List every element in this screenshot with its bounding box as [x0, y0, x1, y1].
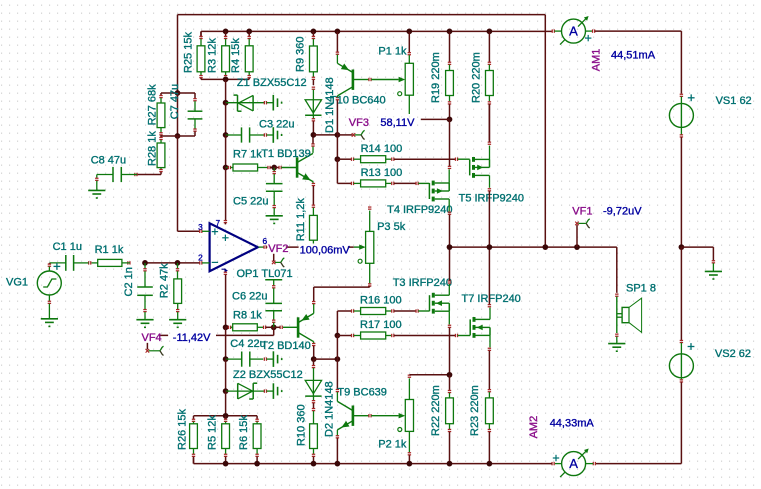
wire T10 collector down [336, 100, 338, 135]
label Z2 BZX55C12 [233, 369, 303, 381]
leader -11,42V [147, 327, 273, 335]
svg-text:P1 1k: P1 1k [378, 46, 407, 58]
resistor R25 15k [197, 31, 205, 79]
label R8 1k [233, 309, 262, 321]
transistor T10 BC640 [336, 31, 371, 99]
label T1 BD139 [261, 148, 311, 160]
resistor R13 100 [337, 180, 415, 187]
wire R14 left corner down [336, 159, 338, 183]
generator VG1 [37, 263, 61, 319]
resistor R1 1k [89, 259, 130, 266]
ground C8 [88, 190, 105, 198]
junction bias node [335, 132, 341, 138]
wire bias node down [336, 135, 338, 159]
resistor R4 15k [245, 31, 253, 79]
junction rail/T9 [335, 461, 341, 467]
svg-text:VF2: VF2 [268, 243, 288, 255]
junction rail/R4 [246, 29, 252, 35]
label AM1 [591, 49, 603, 72]
junction T2 collector node [311, 356, 317, 362]
svg-text:R9 360: R9 360 [295, 37, 307, 72]
svg-text:P3 5k: P3 5k [377, 221, 406, 233]
ground C4 [273, 351, 282, 367]
pin 7 tick [0, 0, 1, 1]
label R23 220m [469, 385, 481, 436]
label R9 360 [295, 37, 307, 72]
wire output row [450, 246, 617, 248]
wire AM1 to VS1 [595, 31, 682, 94]
resistor R28 1k [137, 136, 165, 175]
label T10 BC640 [330, 94, 386, 106]
svg-text:R22 220m: R22 220m [430, 385, 442, 436]
wire VS2 down to AM2 [596, 382, 681, 463]
label T3 IRFP240 [393, 277, 452, 289]
svg-text:T2 BD140: T2 BD140 [261, 340, 311, 352]
resistor R8 1k [223, 324, 274, 331]
label P1 1k [378, 46, 407, 58]
label R6 15k [238, 415, 250, 450]
pin 2 ticks [200, 261, 210, 264]
label R25 15k [182, 32, 194, 73]
wire VS1 down [680, 137, 682, 247]
wire mid to VS2 [680, 247, 682, 340]
svg-text:T3 IRFP240: T3 IRFP240 [393, 277, 452, 289]
svg-text:C8 47u: C8 47u [91, 154, 126, 166]
svg-text:R7 1k: R7 1k [233, 149, 262, 161]
svg-text:T9 BC639: T9 BC639 [337, 386, 387, 398]
svg-text:R2 47k: R2 47k [159, 263, 171, 298]
resistor R17 100 [337, 332, 455, 339]
probe VF3 stub [337, 130, 364, 139]
svg-text:P2 1k: P2 1k [378, 439, 407, 451]
svg-text:VS2 62: VS2 62 [715, 348, 751, 360]
probe VF4 [146, 335, 164, 355]
label R10 360 [295, 404, 307, 446]
potentiometer P2 1k [371, 375, 413, 464]
resistor R3 12k [222, 31, 230, 79]
label R27 68k [146, 84, 158, 125]
probe VF2 stub [272, 247, 284, 267]
svg-text:VF1: VF1 [572, 206, 592, 218]
wire T7 drain up [488, 247, 491, 319]
diode D2 1N4148 [305, 359, 321, 408]
leader 58,11V [421, 118, 450, 120]
wire pin2 row [143, 262, 199, 264]
capacitor C8 47u [95, 167, 137, 191]
label AM2 [528, 416, 540, 439]
junction rail/R3 [223, 29, 229, 35]
ground R2 [169, 320, 186, 328]
T2 base ticks [274, 326, 283, 329]
junction Z2 node [223, 388, 229, 394]
junction T4/T3 drains [447, 244, 453, 250]
svg-text:C6 22u: C6 22u [232, 291, 267, 303]
svg-text:44,33mA: 44,33mA [550, 418, 595, 430]
resistor R11 1,2k [310, 205, 318, 243]
wire T3 drain up [448, 247, 451, 295]
svg-text:R14 100: R14 100 [361, 143, 403, 155]
label C2 1n [123, 267, 135, 296]
resistor R27 68k [157, 93, 177, 136]
transistor T2 BD140 [283, 302, 316, 360]
label VS1 62 [716, 95, 752, 107]
svg-text:-11,42V: -11,42V [173, 332, 211, 344]
svg-text:A: A [569, 456, 578, 471]
junction Z1 node [223, 100, 229, 106]
diode D1 1N4148 [305, 87, 321, 135]
value -11,42V [172, 332, 215, 344]
junction R19 bottom node [447, 117, 453, 123]
junction C2 top [142, 260, 148, 266]
ammeter AM2 [552, 449, 595, 478]
label R1 1k [95, 244, 124, 256]
wire op-amp output [259, 245, 354, 248]
svg-text:100,06mV: 100,06mV [300, 244, 351, 256]
svg-text:T10 BC640: T10 BC640 [330, 94, 386, 106]
wire T1 collector up [312, 135, 314, 144]
label R7 1k [233, 149, 262, 161]
svg-text:VS1 62: VS1 62 [716, 95, 752, 107]
svg-text:T7 IRFP240: T7 IRFP240 [462, 293, 521, 305]
resistor R26 15k [190, 416, 198, 464]
label R3 12k [206, 38, 218, 73]
junction D1 bottom [311, 132, 317, 138]
wire T1 emitter to R11 [312, 186, 314, 205]
source VS2 62 [669, 340, 694, 382]
transistor T9 BC639 [336, 359, 371, 464]
wire feedback left vertical [177, 15, 179, 93]
mosfet T4 IRFP9240 gate lead [416, 182, 429, 185]
node B R27/R28/C7 junction [175, 133, 181, 139]
op-amp supply + marker [222, 235, 228, 241]
resistor R19 220m [446, 31, 454, 119]
resistor R16 100 [361, 308, 416, 315]
op-amp input + marker [212, 228, 218, 234]
ground Z2 [273, 383, 282, 399]
capacitor C2 1n [137, 263, 153, 320]
pin 4 arrow [222, 268, 228, 272]
potentiometer P1 1k [371, 31, 413, 114]
svg-text:R5 12k: R5 12k [206, 415, 218, 450]
label R5 12k [206, 415, 218, 450]
wire R16 corner [337, 309, 360, 335]
label C6 22u [232, 291, 267, 303]
label C3 22u [259, 119, 294, 131]
source VS1 62 [669, 94, 694, 137]
svg-text:OP1 TL071: OP1 TL071 [237, 268, 293, 280]
svg-text:R23 220m: R23 220m [469, 385, 481, 436]
value -9,72uV [603, 206, 642, 218]
wire T4 drain down [448, 199, 451, 247]
junction R14 left [335, 156, 341, 162]
svg-text:AM2: AM2 [528, 416, 540, 439]
label R17 100 [360, 319, 402, 331]
svg-text:R25 15k: R25 15k [182, 32, 194, 73]
junction P2/T3 node [447, 372, 453, 378]
mosfet T5 IRFP9240 [470, 157, 490, 178]
svg-text:R16 100: R16 100 [360, 295, 402, 307]
label VF1 [572, 206, 592, 218]
junction rail/R9 [311, 29, 317, 35]
pin 7 number [216, 219, 221, 228]
svg-text:C3 22u: C3 22u [259, 119, 294, 131]
zener Z1 BZX55C12 [226, 95, 274, 111]
svg-text:R13 100: R13 100 [361, 167, 403, 179]
wire R25/R3/R4 bottoms [201, 78, 249, 80]
svg-text:SP1 8: SP1 8 [626, 283, 656, 295]
wire T5 drain down [488, 175, 491, 247]
label R19 220m [430, 52, 442, 103]
label R28 1k [146, 131, 158, 166]
svg-text:VF3: VF3 [349, 117, 369, 129]
svg-text:R8 1k: R8 1k [233, 309, 262, 321]
svg-text:C2 1n: C2 1n [123, 267, 135, 296]
resistor R6 15k [253, 416, 261, 464]
junction C4 node [223, 356, 229, 362]
junction rail/R20 [487, 29, 493, 35]
wire node A to node B [177, 93, 179, 136]
svg-text:T5 IRFP9240: T5 IRFP9240 [459, 192, 524, 204]
ground Z1 [273, 95, 282, 111]
junction R17 left [335, 333, 341, 339]
label T7 IRFP240 [462, 293, 521, 305]
wire bottom rail [194, 458, 552, 464]
wire R7 to op-amp pin7 [224, 168, 227, 225]
svg-text:R3 12k: R3 12k [206, 38, 218, 73]
svg-text:44,51mA: 44,51mA [611, 50, 656, 62]
wire op-amp pin4 down [224, 272, 227, 327]
junction rail/R23 [487, 461, 493, 467]
mosfet T3 IRFP240 gate lead [416, 309, 429, 312]
junction feedback tap [542, 244, 548, 250]
junction VF1 tap [574, 244, 580, 250]
ground C2 [136, 320, 153, 328]
wire C4 to Z2 [225, 359, 227, 391]
pin 3 ticks [200, 230, 210, 233]
capacitor C1 1u [49, 255, 88, 271]
junction rail/P2 [407, 461, 413, 467]
svg-text:T4 IRFP9240: T4 IRFP9240 [387, 204, 452, 216]
svg-text:R27 68k: R27 68k [146, 84, 158, 125]
label R11 1,2k [295, 198, 307, 242]
svg-text:VF4: VF4 [142, 332, 162, 344]
mosfet T5 IRFP9240 gate lead [455, 158, 469, 161]
label VF2 [267, 243, 288, 255]
wire T7 source down [488, 335, 491, 389]
svg-text:R20 220m: R20 220m [470, 52, 482, 103]
label C5 22u [233, 196, 268, 208]
wire output feedback right vertical [544, 15, 546, 248]
transistor T1 BD139 [274, 144, 315, 186]
label P2 1k [378, 439, 407, 451]
svg-text:2: 2 [198, 252, 203, 262]
label R16 100 [360, 295, 402, 307]
resistor R23 220m [486, 390, 494, 464]
junction R3 bottom [223, 77, 229, 83]
resistor R7 1k [226, 164, 275, 171]
label C8 47u [91, 154, 126, 166]
ground SP1 [608, 344, 625, 352]
pin 2 number [198, 252, 203, 262]
label D1 1N4148 [324, 77, 336, 133]
label OP1 TL071 [237, 268, 293, 280]
svg-text:R11 1,2k: R11 1,2k [295, 198, 307, 242]
svg-text:R6 15k: R6 15k [238, 415, 250, 450]
svg-text:VG1: VG1 [6, 277, 28, 289]
junction D2 top node [335, 356, 341, 362]
label T5 IRFP9240 [459, 192, 524, 204]
mosfet T4 IRFP9240 [429, 181, 449, 202]
svg-text:R1 1k: R1 1k [95, 244, 124, 256]
junction R8 right node [271, 324, 277, 330]
junction T5/T7 drains [487, 244, 493, 250]
svg-text:Z2 BZX55C12: Z2 BZX55C12 [233, 369, 303, 381]
junction supply mid [679, 244, 685, 250]
resistor R9 360 [310, 31, 318, 85]
junction rail/R6 [254, 461, 260, 467]
junction C5/T1 node [271, 165, 277, 171]
svg-text:R26 15k: R26 15k [176, 409, 188, 450]
svg-text:C1 1u: C1 1u [53, 241, 82, 253]
junction rail/T10 [335, 29, 341, 35]
capacitor C3 22u [226, 127, 274, 142]
wire Z2 to R5 [225, 391, 227, 416]
label VG1 [6, 277, 28, 289]
wire T2/D2 row [314, 358, 338, 360]
capacitor C7 47u [178, 93, 203, 136]
ground C3 [273, 127, 282, 143]
wire Z1 to C3 [225, 103, 227, 135]
svg-text:-9,72uV: -9,72uV [603, 206, 642, 218]
label VS2 62 [715, 348, 751, 360]
wire speaker drop [615, 247, 618, 296]
wire R8 node down [225, 327, 227, 359]
op-amp OP1 TL071 [210, 223, 258, 271]
label T9 BC639 [337, 386, 387, 398]
label R20 220m [470, 52, 482, 103]
svg-text:6: 6 [263, 236, 268, 246]
zener Z2 BZX55C12 [226, 383, 274, 399]
label Z1 BZX55C12 [237, 77, 307, 89]
junction rail/R22 [447, 461, 453, 467]
svg-text:D2 1N4148: D2 1N4148 [323, 381, 335, 437]
svg-text:R10 360: R10 360 [295, 404, 307, 446]
svg-text:T1 BD139: T1 BD139 [261, 148, 311, 160]
node A R27/C7 junction [175, 90, 181, 96]
label T2 BD140 [261, 340, 311, 352]
junction R7 node [223, 165, 229, 171]
svg-text:R28 1k: R28 1k [146, 131, 158, 166]
svg-text:R17 100: R17 100 [360, 319, 402, 331]
label R4 15k [230, 38, 242, 73]
label R14 100 [361, 143, 403, 155]
wire T4 source up [448, 119, 451, 183]
junction R6 top [0, 0, 1, 1]
resistor R10 360 [310, 409, 318, 464]
label VF3 [348, 117, 369, 129]
wire positive rail [201, 31, 552, 37]
wire T3 source down [448, 311, 451, 375]
pin 3 number [198, 222, 203, 232]
junction rail/R5 [223, 461, 229, 467]
speaker SP1 8 [615, 297, 642, 344]
resistor R5 12k [222, 416, 230, 464]
ground VG1 [41, 319, 58, 327]
value AM2 44,33mA [550, 418, 595, 430]
svg-text:58,11V: 58,11V [380, 117, 415, 129]
label SP1 8 [626, 283, 656, 295]
wire P3 bottom to T2 emitter [314, 287, 370, 301]
wire P2 top to T3 source node [409, 374, 449, 376]
label C7 47u [169, 84, 181, 119]
svg-text:7: 7 [216, 219, 221, 228]
label C1 1u [53, 241, 82, 253]
op-amp input - marker [212, 261, 218, 263]
svg-text:R4 15k: R4 15k [230, 38, 242, 73]
capacitor C4 22u [226, 352, 274, 367]
svg-text:C5 22u: C5 22u [233, 196, 268, 208]
resistor R20 220m [486, 31, 494, 140]
junction C3 node [223, 132, 229, 138]
wire C3 to R7 [225, 135, 227, 168]
wire R26/R5/R6 tops [194, 415, 258, 417]
junction rail/R19 [447, 29, 453, 35]
capacitor C5 22u [266, 168, 283, 216]
label P3 5k [377, 221, 406, 233]
mosfet T7 IRFP240 [470, 317, 490, 338]
resistor R14 100 [337, 156, 455, 163]
label R13 100 [361, 167, 403, 179]
svg-text:C7 47u: C7 47u [169, 84, 181, 119]
wire mid to ground [681, 247, 715, 271]
mosfet T7 IRFP240 gate lead [455, 334, 470, 337]
value AM1 44,51mA [611, 50, 656, 62]
resistor R22 220m [446, 375, 454, 464]
svg-text:A: A [569, 24, 578, 39]
resistor R2 47k [174, 263, 182, 320]
wire top feedback rail [178, 14, 546, 16]
value 100,06mV [299, 244, 351, 256]
probe VF1 [575, 219, 590, 247]
junction rail/R10 [311, 461, 317, 467]
pin 6 number [263, 236, 268, 246]
ground C5 [266, 216, 283, 224]
potentiometer P3 5k [354, 207, 374, 287]
label VF4 [141, 332, 162, 344]
wire down to Z1 row [225, 79, 227, 102]
label D2 1N4148 [323, 381, 335, 437]
wire node B down to op-amp pin3 [178, 136, 200, 231]
label T4 IRFP9240 [387, 204, 452, 216]
svg-text:R19 220m: R19 220m [430, 52, 442, 103]
svg-text:Z1 BZX55C12: Z1 BZX55C12 [237, 77, 307, 89]
wire R17 node down [336, 336, 338, 360]
junction R2 top [175, 260, 181, 266]
ammeter AM1 [552, 16, 594, 45]
label C4 22u [230, 338, 265, 350]
ground supply mid [705, 271, 722, 279]
label R26 15k [176, 409, 188, 450]
junction R5 top [223, 413, 229, 419]
wire T5 source up [488, 104, 491, 159]
value 58,11V [379, 117, 416, 129]
svg-text:AM1: AM1 [591, 49, 603, 72]
label R22 220m [430, 385, 442, 436]
junction rail/P1 [406, 29, 412, 35]
mosfet T3 IRFP240 [430, 293, 450, 314]
capacitor C6 22u [265, 280, 282, 328]
svg-text:C4 22u: C4 22u [230, 338, 265, 350]
